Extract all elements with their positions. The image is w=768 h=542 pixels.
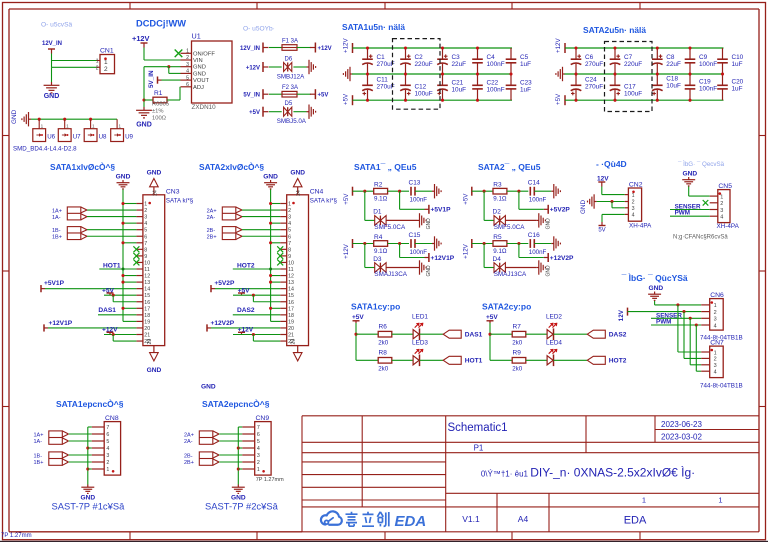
- svg-text:21: 21: [144, 333, 150, 339]
- svg-text:2: 2: [104, 66, 108, 73]
- svg-text:VOUT: VOUT: [193, 78, 210, 84]
- svg-text:3: 3: [720, 208, 723, 214]
- svg-text:GND: GND: [545, 265, 551, 277]
- svg-text:U6: U6: [47, 133, 55, 140]
- svg-text:O- u5cvSä: O- u5cvSä: [41, 22, 72, 29]
- svg-text:ADJ: ADJ: [193, 85, 204, 91]
- svg-text:22uF: 22uF: [452, 61, 467, 68]
- svg-text:GND: GND: [683, 170, 698, 177]
- svg-text:D2: D2: [493, 209, 502, 216]
- svg-text:5: 5: [144, 228, 147, 234]
- svg-text:GND: GND: [201, 384, 216, 391]
- svg-text:+5V2P: +5V2P: [214, 280, 235, 287]
- svg-text:5V: 5V: [598, 228, 605, 234]
- svg-text:O- u5OYb·: O- u5OYb·: [243, 26, 275, 33]
- svg-text:GND: GND: [545, 218, 551, 230]
- svg-text:6: 6: [186, 82, 189, 88]
- svg-text:SATA2xIvØcÒ^§: SATA2xIvØcÒ^§: [199, 161, 264, 172]
- svg-text:100Ω: 100Ω: [152, 116, 167, 122]
- svg-text:12V_IN: 12V_IN: [240, 46, 260, 52]
- svg-text:12V: 12V: [597, 175, 609, 182]
- svg-text:100nF: 100nF: [699, 61, 717, 68]
- svg-text:270uF: 270uF: [585, 61, 603, 68]
- svg-text:100nF: 100nF: [487, 87, 505, 94]
- svg-text:2B+: 2B+: [184, 460, 194, 466]
- svg-text:SAST-7P #2c¥Sâ: SAST-7P #2c¥Sâ: [205, 500, 279, 511]
- svg-text:23: 23: [147, 339, 153, 345]
- svg-text:5V_IN: 5V_IN: [148, 70, 155, 88]
- svg-text:SATA1¯ „ QEu5: SATA1¯ „ QEu5: [354, 162, 417, 172]
- svg-text:2: 2: [257, 460, 260, 466]
- svg-text:17: 17: [288, 306, 294, 312]
- svg-text:SATA1cy:po: SATA1cy:po: [351, 302, 400, 312]
- svg-text:1B-: 1B-: [34, 454, 43, 460]
- svg-text:5: 5: [106, 439, 109, 445]
- svg-text:P1: P1: [474, 444, 484, 453]
- svg-text:10uF: 10uF: [452, 87, 467, 94]
- svg-text:17: 17: [144, 306, 150, 312]
- svg-text:+12V: +12V: [132, 34, 150, 43]
- svg-text:+12V1P: +12V1P: [431, 255, 455, 262]
- svg-text:18: 18: [288, 313, 294, 319]
- svg-text:+12V: +12V: [462, 243, 469, 258]
- svg-text:+12V2P: +12V2P: [550, 255, 574, 262]
- svg-text:DCDCj!WW: DCDCj!WW: [136, 19, 186, 29]
- svg-text:19: 19: [288, 319, 294, 325]
- svg-text:+12V2P: +12V2P: [211, 320, 235, 327]
- svg-text:GND: GND: [426, 218, 432, 230]
- svg-text:1: 1: [144, 202, 147, 208]
- svg-text:100uF: 100uF: [415, 91, 433, 98]
- svg-text:11: 11: [144, 267, 150, 273]
- svg-text:GND: GND: [193, 71, 206, 77]
- svg-text:3: 3: [144, 215, 147, 221]
- svg-text:4: 4: [632, 213, 635, 219]
- svg-text:SAST-7P #1c¥Sâ: SAST-7P #1c¥Sâ: [52, 500, 126, 511]
- svg-text:4: 4: [257, 446, 260, 452]
- svg-text:18: 18: [144, 313, 150, 319]
- svg-text:12: 12: [288, 274, 294, 280]
- svg-text:1: 1: [718, 496, 722, 505]
- svg-text:CN2: CN2: [629, 181, 643, 188]
- svg-text:5V_IN: 5V_IN: [243, 93, 260, 99]
- svg-text:1uF: 1uF: [520, 87, 531, 94]
- svg-text:R4: R4: [374, 234, 383, 241]
- svg-text:1: 1: [720, 194, 723, 200]
- svg-text:2: 2: [186, 55, 189, 61]
- svg-text:SATA2¯ „ QEu5: SATA2¯ „ QEu5: [478, 162, 541, 172]
- svg-text:14: 14: [144, 287, 150, 293]
- svg-text:CN3: CN3: [166, 189, 180, 196]
- svg-text:GND: GND: [580, 200, 587, 214]
- svg-text:2: 2: [144, 208, 147, 214]
- svg-text:HOT2: HOT2: [609, 358, 627, 365]
- svg-text:C16: C16: [528, 232, 540, 239]
- svg-text:+5V: +5V: [555, 93, 562, 105]
- svg-text:+5V: +5V: [343, 193, 350, 205]
- svg-text:GND: GND: [147, 367, 162, 374]
- svg-text:22uF: 22uF: [666, 61, 681, 68]
- svg-text:7: 7: [288, 241, 291, 247]
- svg-text:1: 1: [186, 49, 189, 55]
- svg-text:HOT1: HOT1: [103, 262, 121, 269]
- svg-text:+5V2P: +5V2P: [550, 207, 571, 214]
- svg-text:7P 1.27mm: 7P 1.27mm: [256, 477, 284, 483]
- svg-text:4: 4: [186, 69, 189, 75]
- svg-text:1A+: 1A+: [34, 433, 44, 439]
- svg-text:1uF: 1uF: [732, 86, 743, 93]
- svg-text:+5V: +5V: [462, 193, 469, 205]
- svg-text:SATA1xIvØcÒ^§: SATA1xIvØcÒ^§: [50, 161, 115, 172]
- svg-text:13: 13: [144, 280, 150, 286]
- svg-text:D6: D6: [285, 56, 293, 62]
- svg-text:100nF: 100nF: [529, 197, 547, 204]
- svg-text:270uF: 270uF: [585, 84, 603, 91]
- svg-text:2A-: 2A-: [184, 439, 193, 445]
- svg-text:2A+: 2A+: [184, 433, 194, 439]
- svg-text:R9: R9: [513, 350, 522, 357]
- svg-text:6: 6: [144, 234, 147, 240]
- svg-text:8: 8: [144, 247, 147, 253]
- svg-text:F1 3A: F1 3A: [282, 38, 298, 44]
- svg-text:100nF: 100nF: [410, 197, 428, 204]
- svg-text:12V: 12V: [618, 309, 625, 321]
- svg-text:2: 2: [720, 201, 723, 207]
- svg-text:SATA2u5n· nälä: SATA2u5n· nälä: [583, 25, 646, 35]
- svg-text:VIN: VIN: [193, 58, 203, 64]
- svg-text:9.1Ω: 9.1Ω: [493, 196, 507, 203]
- svg-text:GND: GND: [147, 169, 162, 176]
- svg-text:9: 9: [144, 254, 147, 260]
- svg-text:ZXDN10: ZXDN10: [192, 104, 217, 111]
- svg-text:100nF: 100nF: [699, 86, 717, 93]
- svg-text:1: 1: [257, 467, 260, 473]
- svg-text:100nF: 100nF: [410, 249, 428, 256]
- svg-text:GND: GND: [136, 122, 152, 129]
- svg-text:16: 16: [144, 300, 150, 306]
- svg-text:R3: R3: [493, 182, 502, 189]
- svg-text:9.1Ω: 9.1Ω: [374, 196, 388, 203]
- svg-text:6: 6: [288, 234, 291, 240]
- svg-text:1A+: 1A+: [52, 208, 62, 214]
- svg-text:2: 2: [288, 208, 291, 214]
- svg-text:19: 19: [144, 319, 150, 325]
- svg-text:±1%: ±1%: [152, 109, 164, 115]
- svg-text:3: 3: [632, 206, 635, 212]
- svg-text:9.1Ω: 9.1Ω: [374, 248, 388, 255]
- svg-text:SATA2epcncÒ^§: SATA2epcncÒ^§: [202, 398, 270, 409]
- svg-text:2B-: 2B-: [184, 454, 193, 460]
- svg-text:20: 20: [288, 326, 294, 332]
- svg-text:1: 1: [288, 202, 291, 208]
- svg-text:GND: GND: [11, 109, 18, 124]
- svg-text:1A-: 1A-: [34, 439, 43, 445]
- svg-text:R2: R2: [374, 182, 383, 189]
- svg-text:¯ ÌbG· ¯ QùcYSä: ¯ ÌbG· ¯ QùcYSä: [621, 273, 688, 283]
- svg-text:1uF: 1uF: [732, 61, 743, 68]
- svg-text:CN6: CN6: [710, 292, 724, 299]
- svg-text:2k0: 2k0: [512, 366, 523, 373]
- svg-text:7P 1.27mm: 7P 1.27mm: [1, 533, 32, 539]
- svg-text:+5V1P: +5V1P: [431, 207, 452, 214]
- svg-text:HOT1: HOT1: [465, 358, 483, 365]
- svg-text:2A+: 2A+: [207, 208, 217, 214]
- svg-text:+12V: +12V: [343, 243, 350, 258]
- svg-text:3: 3: [714, 363, 717, 369]
- svg-text:14: 14: [288, 287, 294, 293]
- svg-text:CN9: CN9: [256, 415, 270, 422]
- svg-text:1: 1: [714, 350, 717, 356]
- svg-text:R8: R8: [379, 350, 388, 357]
- svg-text:DAS2: DAS2: [237, 307, 255, 314]
- svg-text:GND: GND: [44, 93, 60, 100]
- svg-text:- ·Qù4D: - ·Qù4D: [596, 159, 627, 169]
- svg-text:12: 12: [144, 274, 150, 280]
- svg-text:4: 4: [288, 221, 291, 227]
- svg-text:GND: GND: [649, 285, 664, 292]
- svg-text:CN1: CN1: [100, 48, 114, 55]
- svg-text:5: 5: [288, 228, 291, 234]
- svg-text:6: 6: [257, 432, 260, 438]
- svg-text:LED4: LED4: [546, 339, 562, 346]
- svg-text:1B+: 1B+: [34, 460, 44, 466]
- svg-text:2: 2: [106, 460, 109, 466]
- svg-text:13: 13: [288, 280, 294, 286]
- svg-text:Schematic1: Schematic1: [447, 422, 507, 434]
- svg-text:4: 4: [714, 370, 717, 376]
- svg-text:PWM: PWM: [675, 210, 690, 217]
- svg-text:SATA1u5n· nälä: SATA1u5n· nälä: [342, 22, 405, 32]
- svg-text:R5: R5: [493, 234, 502, 241]
- svg-text:220uF: 220uF: [624, 61, 642, 68]
- svg-text:10: 10: [288, 260, 294, 266]
- svg-text:7: 7: [144, 241, 147, 247]
- svg-text:1B+: 1B+: [52, 235, 62, 241]
- svg-text:R7: R7: [513, 324, 522, 331]
- svg-text:15: 15: [144, 293, 150, 299]
- svg-text:SMF5.0CA: SMF5.0CA: [374, 224, 406, 231]
- svg-text:23: 23: [291, 339, 297, 345]
- svg-text:220uF: 220uF: [415, 61, 433, 68]
- svg-text:6: 6: [106, 432, 109, 438]
- svg-text:1uF: 1uF: [520, 61, 531, 68]
- svg-text:R0805: R0805: [152, 102, 169, 108]
- svg-text:C13: C13: [409, 180, 421, 187]
- svg-text:SMAJ13CA: SMAJ13CA: [494, 271, 527, 278]
- svg-text:2: 2: [96, 65, 99, 71]
- svg-text:100uF: 100uF: [624, 91, 642, 98]
- svg-text:100nF: 100nF: [487, 61, 505, 68]
- svg-text:4: 4: [144, 221, 147, 227]
- svg-text:7: 7: [106, 425, 109, 431]
- svg-text:2023-03-02: 2023-03-02: [661, 432, 702, 441]
- svg-text:DAS1: DAS1: [98, 307, 116, 314]
- svg-text:F2 3A: F2 3A: [282, 85, 298, 91]
- svg-text:HOT2: HOT2: [237, 262, 255, 269]
- svg-text:DAS2: DAS2: [609, 332, 627, 339]
- svg-text:11: 11: [288, 267, 294, 273]
- svg-text:C14: C14: [528, 180, 540, 187]
- svg-text:10: 10: [144, 260, 150, 266]
- svg-text:2B+: 2B+: [207, 235, 217, 241]
- svg-text:1B-: 1B-: [52, 228, 61, 234]
- svg-text:D3: D3: [373, 256, 382, 263]
- svg-text:SMBJ5.0A: SMBJ5.0A: [277, 118, 307, 125]
- svg-text:+5V: +5V: [249, 110, 260, 116]
- svg-text:ON/OFF: ON/OFF: [193, 51, 215, 57]
- svg-text:EDA: EDA: [624, 515, 647, 527]
- svg-text:+5V1P: +5V1P: [44, 280, 65, 287]
- svg-text:10uF: 10uF: [666, 83, 681, 90]
- svg-text:1: 1: [632, 193, 635, 199]
- svg-text:+12V: +12V: [318, 46, 332, 52]
- svg-text:5: 5: [186, 75, 189, 81]
- svg-text:24: 24: [152, 190, 158, 196]
- svg-text:+5V: +5V: [318, 93, 329, 99]
- svg-text:744-8t-04TB1B: 744-8t-04TB1B: [700, 334, 743, 341]
- svg-text:+12V: +12V: [555, 38, 562, 53]
- svg-text:2k0: 2k0: [378, 366, 389, 373]
- svg-text:3: 3: [257, 453, 260, 459]
- svg-text:¯ ÌbG· ¯ QecvSä: ¯ ÌbG· ¯ QecvSä: [677, 161, 725, 168]
- svg-text:9: 9: [288, 254, 291, 260]
- svg-text:GND: GND: [426, 265, 432, 277]
- svg-text:C15: C15: [409, 232, 421, 239]
- svg-text:XH-4PA: XH-4PA: [717, 223, 740, 230]
- svg-text:7: 7: [257, 425, 260, 431]
- svg-text:3: 3: [714, 317, 717, 323]
- svg-text:1A-: 1A-: [52, 215, 61, 221]
- svg-text:CN5: CN5: [718, 183, 732, 190]
- svg-text:U9: U9: [125, 133, 133, 140]
- svg-text:GND: GND: [116, 174, 131, 181]
- svg-text:2k0: 2k0: [512, 340, 523, 347]
- svg-text:R6: R6: [379, 324, 388, 331]
- svg-text:21: 21: [288, 333, 294, 339]
- svg-text:15: 15: [288, 293, 294, 299]
- svg-text:EDA: EDA: [395, 513, 427, 530]
- svg-text:4: 4: [720, 215, 723, 221]
- svg-text:1: 1: [642, 496, 646, 505]
- svg-text:4: 4: [106, 446, 109, 452]
- svg-text:+12V: +12V: [343, 38, 350, 53]
- svg-text:LED3: LED3: [412, 339, 428, 346]
- svg-text:SMF5.0CA: SMF5.0CA: [494, 224, 526, 231]
- svg-text:2: 2: [714, 357, 717, 363]
- svg-text:CN8: CN8: [105, 415, 119, 422]
- svg-text:3: 3: [106, 453, 109, 459]
- svg-text:2B-: 2B-: [207, 228, 216, 234]
- svg-text:CN4: CN4: [310, 189, 324, 196]
- svg-text:D4: D4: [493, 256, 502, 263]
- svg-text:24: 24: [296, 190, 302, 196]
- svg-text:U1: U1: [192, 32, 201, 41]
- svg-text:SMBJ12A: SMBJ12A: [277, 73, 305, 80]
- svg-text:+5V: +5V: [343, 93, 350, 105]
- svg-text:3: 3: [186, 62, 189, 68]
- svg-text:4: 4: [714, 323, 717, 329]
- svg-text:8: 8: [288, 247, 291, 253]
- svg-text:SMD_BD4.4-L4.4-D2.8: SMD_BD4.4-L4.4-D2.8: [13, 146, 77, 153]
- svg-text:2: 2: [714, 310, 717, 316]
- svg-text:SATA kí*§: SATA kí*§: [166, 198, 194, 205]
- svg-text:GND: GND: [263, 174, 278, 181]
- svg-text:100nF: 100nF: [529, 249, 547, 256]
- svg-text:D5: D5: [285, 101, 293, 107]
- svg-text:LED1: LED1: [412, 313, 428, 320]
- svg-text:9.1Ω: 9.1Ω: [493, 248, 507, 255]
- svg-text:D1: D1: [373, 209, 382, 216]
- svg-text:1: 1: [106, 467, 109, 473]
- svg-text:U8: U8: [99, 133, 107, 140]
- svg-text:2: 2: [632, 200, 635, 206]
- svg-text:+12V1P: +12V1P: [49, 320, 73, 327]
- svg-text:R1: R1: [154, 90, 163, 97]
- svg-text:2k0: 2k0: [378, 340, 389, 347]
- svg-text:GND: GND: [193, 65, 206, 71]
- svg-text:GND: GND: [290, 169, 305, 176]
- svg-text:2A-: 2A-: [207, 215, 216, 221]
- svg-text:SATA2cy:po: SATA2cy:po: [482, 302, 531, 312]
- svg-text:2023-06-23: 2023-06-23: [661, 420, 702, 429]
- svg-text:A4: A4: [518, 514, 529, 524]
- svg-text:20: 20: [144, 326, 150, 332]
- svg-text:SMAJ13CA: SMAJ13CA: [374, 271, 407, 278]
- svg-text:1: 1: [96, 59, 99, 65]
- svg-text:+12V: +12V: [246, 65, 260, 71]
- svg-text:DAS1: DAS1: [465, 332, 483, 339]
- svg-text:16: 16: [288, 300, 294, 306]
- svg-text:5: 5: [257, 439, 260, 445]
- svg-text:1: 1: [714, 303, 717, 309]
- svg-text:N;g·CFANc§R6cvSâ: N;g·CFANc§R6cvSâ: [673, 234, 728, 240]
- svg-text:3: 3: [288, 215, 291, 221]
- svg-text:XH-4PA: XH-4PA: [629, 223, 652, 230]
- svg-text:V1.1: V1.1: [462, 514, 480, 524]
- svg-text:SATA1epcncÒ^§: SATA1epcncÒ^§: [56, 398, 124, 409]
- svg-text:744-8t-04TB1B: 744-8t-04TB1B: [700, 383, 743, 390]
- svg-text:SATA kí*§: SATA kí*§: [310, 198, 338, 205]
- svg-text:12V_IN: 12V_IN: [42, 41, 62, 47]
- svg-text:U7: U7: [73, 133, 81, 140]
- svg-text:LED2: LED2: [546, 313, 562, 320]
